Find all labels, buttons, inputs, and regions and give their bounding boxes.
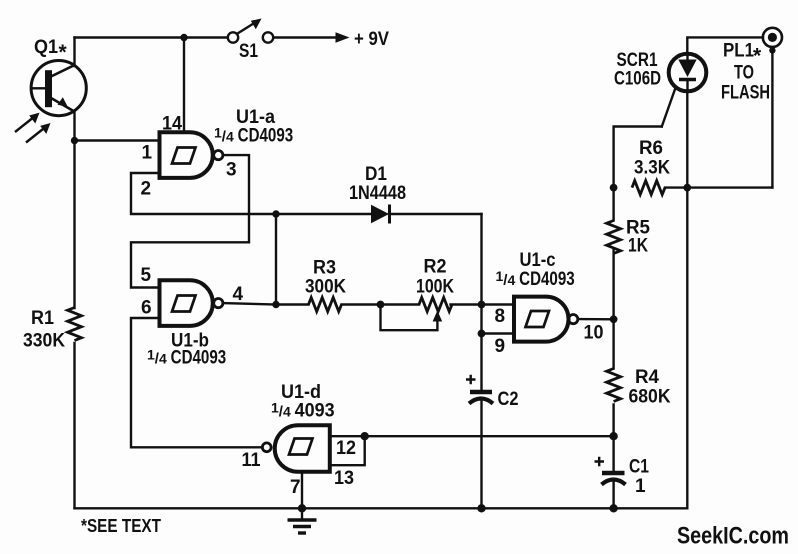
- node junction pin10: [610, 315, 618, 323]
- resistor R6 3.3K: [632, 181, 665, 195]
- wire SCR gate diagonal: [662, 88, 676, 127]
- node junction D at pin8: [478, 301, 486, 309]
- svg-text:R6: R6: [639, 138, 663, 159]
- svg-text:1K: 1K: [628, 236, 648, 257]
- wire R4 bottom to junction and C1: [612, 405, 614, 472]
- capacitor C2: [466, 375, 493, 509]
- node junction R6 left / R5 top: [610, 184, 618, 192]
- svg-text:100K: 100K: [416, 277, 454, 298]
- svg-text:C106D: C106D: [614, 69, 661, 90]
- svg-text:330K: 330K: [23, 331, 65, 352]
- svg-text:680K: 680K: [629, 387, 671, 408]
- svg-text:6: 6: [141, 298, 152, 319]
- wire S1 to +9V arrow: [274, 36, 338, 38]
- svg-text:5: 5: [141, 265, 152, 286]
- svg-text:3.3K: 3.3K: [634, 158, 670, 179]
- wire SCR anode up and right to PL1: [687, 37, 763, 54]
- svg-text:+ 9V: + 9V: [354, 29, 389, 50]
- svg-text:300K: 300K: [305, 277, 346, 298]
- node Q1 emitter junction: [71, 137, 78, 144]
- wire pin1 of U1-a: [75, 139, 159, 141]
- ground symbol: [288, 508, 317, 533]
- svg-text:*: *: [59, 41, 68, 64]
- node junction C R2 wiper tap: [377, 301, 385, 309]
- op-amp U1-d NAND gate 4093 (mirrored): [262, 425, 329, 472]
- node junction R6 right / cathode: [683, 184, 691, 192]
- wire PL1 vertical down: [771, 47, 773, 188]
- svg-text:4: 4: [233, 284, 244, 305]
- svg-text:C2: C2: [498, 389, 519, 410]
- wire U1-d pin7 down to ground rail: [301, 472, 303, 509]
- wire R2 right side to junction D / pin8: [451, 303, 513, 305]
- svg-text:1/4 CD4093: 1/4 CD4093: [214, 125, 293, 147]
- svg-text:SeekIC.com: SeekIC.com: [677, 523, 789, 550]
- wire U1-a pin2 loop: left, down, right to node A: [131, 173, 276, 214]
- svg-text:TO: TO: [734, 63, 754, 84]
- wire R5 node vertical: [612, 188, 614, 221]
- svg-text:2: 2: [141, 179, 152, 200]
- node junction pin12/13: [361, 432, 369, 440]
- svg-text:14: 14: [162, 114, 182, 135]
- svg-text:Q1: Q1: [34, 37, 58, 58]
- resistor R5 1K: [607, 221, 621, 254]
- svg-text:R2: R2: [424, 257, 447, 278]
- wire U1-b pin6 down to U1-d pin11: [131, 318, 263, 447]
- wire node A down to pin4 line: [275, 214, 277, 305]
- resistor R2 100K potentiometer: [419, 298, 452, 312]
- wire bottom rail: [75, 507, 688, 509]
- node A junction D1 line: [272, 210, 279, 217]
- resistor R1 330K: [68, 308, 82, 341]
- svg-text:1/4 4093: 1/4 4093: [271, 400, 335, 422]
- node junction C1 bottom rail: [609, 504, 617, 512]
- svg-text:9: 9: [495, 336, 506, 357]
- wire D1 anode line: [276, 213, 371, 215]
- wire Q1 emitter vertical down to R1 and bottom rail: [73, 112, 75, 308]
- op-amp U1-b NAND gate CD4093: [160, 280, 223, 326]
- op-amp U1-a NAND gate CD4093: [160, 132, 223, 178]
- svg-text:10: 10: [584, 323, 604, 344]
- wire D1 cathode line to vertical: [389, 213, 482, 215]
- node PL1 connector bullseye: [763, 28, 782, 54]
- svg-text:3: 3: [226, 160, 237, 181]
- svg-text:7: 7: [290, 477, 301, 498]
- svg-text:FLASH: FLASH: [721, 83, 770, 104]
- node junction pin7 ground: [298, 504, 306, 512]
- wire pin9 stub: [482, 332, 513, 334]
- svg-text:12: 12: [336, 438, 356, 459]
- wire U1-c pin10 output to R4/R5 node: [578, 318, 614, 321]
- svg-text:8: 8: [495, 306, 506, 327]
- svg-text:1N4448: 1N4448: [349, 183, 406, 204]
- wire Q1 collector vertical: [73, 38, 75, 67]
- photo arrow 2 into Q1: [26, 123, 51, 143]
- wire U1-a pin3 output: right, down, left, down to pin5: [131, 155, 249, 287]
- node R2 wiper arrowhead: [433, 311, 443, 322]
- wire R6 right to SCR cathode node: [665, 186, 687, 188]
- wire top rail from Q1 collector to S1: [75, 36, 228, 38]
- svg-text:U1-c: U1-c: [520, 250, 556, 271]
- switch S1: [228, 19, 273, 43]
- diode D1 1N4448: [371, 205, 390, 224]
- resistor R4 680K: [607, 369, 621, 402]
- svg-text:1: 1: [635, 476, 646, 497]
- node +9V arrowhead: [336, 32, 350, 43]
- resistor R3 300K: [309, 298, 342, 312]
- svg-text:S1: S1: [239, 41, 258, 62]
- svg-text:1: 1: [142, 143, 153, 164]
- wire R5 node down to R4: [612, 250, 614, 369]
- node junction B pin4/node A: [272, 301, 279, 308]
- svg-text:D1: D1: [365, 164, 387, 185]
- node junction C2 bottom rail: [477, 504, 485, 512]
- svg-text:C1: C1: [629, 457, 649, 478]
- wire pin4 line to R3: [276, 303, 309, 305]
- node junction pin9: [478, 330, 486, 338]
- op-amp U1-c NAND gate CD4093: [514, 297, 578, 342]
- svg-text:13: 13: [334, 468, 354, 489]
- svg-text:PL1: PL1: [723, 41, 754, 62]
- photo arrow 1 into Q1: [15, 113, 40, 132]
- wire vertical from D1 down to pin8/pin9/C2: [480, 214, 482, 391]
- wire U1-d pin13 loop: [330, 436, 365, 465]
- wire SCR cathode down to bottom rail: [686, 92, 688, 509]
- svg-text:*SEE TEXT: *SEE TEXT: [81, 516, 161, 536]
- svg-text:11: 11: [242, 450, 261, 471]
- svg-text:1/4 CD4093: 1/4 CD4093: [496, 268, 575, 290]
- wire U1-d pin12 line to R4/C1 junction: [365, 435, 614, 437]
- transistor SCR1 C106D: [669, 54, 707, 92]
- transistor Q1 phototransistor: [31, 61, 86, 116]
- svg-text:R4: R4: [635, 367, 659, 388]
- wire pin14 drop: [183, 38, 185, 132]
- svg-text:R1: R1: [31, 308, 54, 329]
- svg-text:*: *: [753, 45, 762, 68]
- node junction R4/C1/pin12 line: [609, 432, 617, 440]
- capacitor C1: [595, 457, 626, 509]
- wire R3 to junction C: [342, 303, 420, 305]
- wire U1-d pin12 stub: [330, 435, 365, 437]
- wire SCR gate node down to R6: [614, 127, 662, 188]
- wire U1-b pin4 output to R3: [223, 303, 276, 304]
- svg-text:1/4 CD4093: 1/4 CD4093: [147, 347, 226, 369]
- svg-text:R3: R3: [313, 258, 336, 279]
- node junction top rail: [180, 34, 187, 41]
- wire cathode node to PL1 vertical: [687, 186, 772, 188]
- wire R2 wiper loop: [381, 305, 438, 331]
